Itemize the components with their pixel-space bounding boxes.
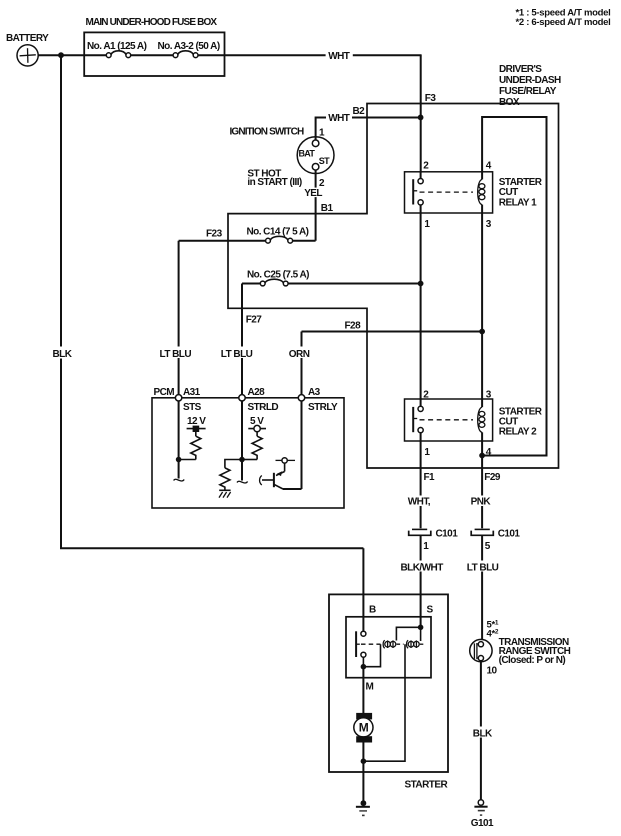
node B2/F3 junction [418,115,424,121]
wire M to motor [362,667,364,713]
svg-text:DRIVER'S: DRIVER'S [499,64,542,75]
svg-text:M: M [366,682,374,693]
wire range switch to G101 (BLK) [472,662,494,800]
ground G101 [471,800,494,829]
svg-text:YEL: YEL [304,188,322,199]
svg-text:FUSE/RELAY: FUSE/RELAY [499,86,557,97]
solenoid pull-in coil L1 [383,640,403,648]
svg-text:BLK: BLK [473,728,493,739]
svg-text:STARTER: STARTER [405,780,449,791]
svg-text:CUT: CUT [499,187,518,198]
starter motor M1 [354,713,373,743]
wire F27 to PCM A28 (LT BLU) [220,284,259,398]
wire motor to ground [362,743,364,804]
wire fuse box to F3 drop (WHT) [225,51,422,62]
starter box [329,594,448,790]
svg-text:BATTERY: BATTERY [6,33,49,44]
transistor Q1 (STRLY driver) [260,458,302,489]
node STS junction [176,457,182,463]
pin A31 STS [175,387,201,413]
wire contact to M node [363,644,380,667]
svg-text:No. A3-2 (50 A): No. A3-2 (50 A) [158,41,220,52]
fuse No. A1 (125 A) [84,41,173,58]
svg-text:MAIN UNDER-HOOD FUSE BOX: MAIN UNDER-HOOD FUSE BOX [86,17,218,28]
svg-text:STS: STS [183,402,202,413]
fuse No. A3-2 (50 A) [158,41,225,58]
svg-text:UNDER-DASH: UNDER-DASH [499,75,561,86]
svg-text:PNK: PNK [471,496,492,507]
solenoid hold-in coil L2 [407,627,425,648]
svg-text:A3: A3 [308,387,321,398]
svg-text:F1: F1 [424,472,436,483]
svg-text:F28: F28 [345,321,362,332]
svg-text:RELAY 1: RELAY 1 [499,198,537,209]
wire F3 vertical [420,55,422,172]
wire A28 internal [237,401,248,483]
wire coil return [363,644,405,761]
svg-text:A31: A31 [183,387,201,398]
node S junction [418,625,424,631]
svg-text:12 V: 12 V [187,416,206,427]
svg-text:*2 : 6-speed A/T model: *2 : 6-speed A/T model [516,17,611,28]
resistor to ground on STRLD [220,460,242,491]
note A/T models [516,8,611,28]
wire C101 to range switch (LT BLU) [466,535,499,639]
svg-text:B1: B1 [321,203,334,214]
svg-text:in START (III): in START (III) [247,177,302,188]
wire battery to fuse box [38,54,84,56]
wire A3 internal [301,401,303,489]
node M junction [361,664,367,670]
node F28/relay junction [479,329,485,335]
5 V pull-up on STRLD [242,416,266,460]
svg-text:A28: A28 [248,387,266,398]
svg-text:B: B [369,604,376,615]
wire relay2 pin4 to C101 (F29, PNK) [470,441,501,528]
node motor/coil junction [361,758,367,764]
svg-text:LT BLU: LT BLU [221,349,253,360]
starter cut relay 2 U2 [405,389,543,458]
svg-text:WHT,: WHT, [408,496,431,507]
wire relay1 pin4 loop to relay2 pin4 [482,117,546,456]
svg-text:IGNITION SWITCH: IGNITION SWITCH [230,127,305,138]
fuse No. C14 (7 5 A) [179,226,316,243]
svg-text:RELAY 2: RELAY 2 [499,427,537,438]
svg-text:F27: F27 [246,315,263,326]
svg-text:PCM: PCM [154,387,175,398]
main under-hood fuse box [84,17,224,76]
battery [6,33,49,66]
svg-text:STRLY: STRLY [308,402,338,413]
svg-text:LT BLU: LT BLU [160,349,192,360]
svg-text:ORN: ORN [289,349,310,360]
svg-text:BLK: BLK [53,349,73,360]
svg-text:BLK/WHT: BLK/WHT [401,562,444,573]
svg-text:WHT: WHT [328,113,350,124]
wire battery BLK down and across [51,55,363,548]
node battery junction [58,52,64,58]
wire ignition pin2 down (YEL, B1) [303,170,333,241]
svg-text:STRLD: STRLD [248,402,279,413]
pin A28 STRLD [239,387,279,413]
solenoid contacts [356,631,380,657]
wire ignition pin1 to B2 (WHT) [316,113,421,140]
12 V pull-up on STS [179,416,207,460]
wire relay1 pin3 to relay2 pin3 [481,213,483,399]
svg-text:S: S [427,604,434,615]
PCM box [152,387,344,508]
svg-text:F23: F23 [206,229,223,240]
svg-text:F29: F29 [484,472,501,483]
wire F28 (ORN) to PCM A3 [288,332,483,398]
svg-text:No. C25 (7.5 A): No. C25 (7.5 A) [247,269,309,280]
connector C101 pin 5 [471,529,520,553]
svg-text:10: 10 [487,666,498,677]
starter cut relay 1 U1 [405,161,543,231]
transmission range switch S1 [470,619,571,677]
wire relay2 pin1 to C101 (F1, WHT) [407,441,436,528]
pin A3 STRLY [298,387,338,413]
node C25 junction [418,281,424,287]
driver's under-dash fuse/relay box [228,64,561,468]
starter solenoid box [346,617,431,678]
fuse No. C25 (7.5 A) [242,269,421,286]
svg-text:BAT: BAT [299,149,316,159]
ground PCM internal [219,490,231,497]
svg-text:M: M [359,721,369,735]
svg-text:F3: F3 [425,93,437,104]
node relay2 pin4 junction [479,453,485,459]
wire relay1 pin1 to relay2 pin2 [420,213,422,399]
svg-text:(Closed: P or N): (Closed: P or N) [499,655,566,666]
svg-text:C101: C101 [498,529,521,540]
ground starter [356,800,370,815]
connector C101 pin 1 [409,529,458,553]
svg-text:B2: B2 [353,106,366,117]
wire BLK into starter B [362,548,364,631]
wire C101 to starter S (BLK/WHT) [400,535,444,627]
wire F23 to PCM A31 (LT BLU) [158,241,197,398]
ignition switch [230,127,335,190]
wire A31 internal [174,401,185,481]
svg-text:BOX: BOX [499,97,520,108]
node STRLD junction [239,457,245,463]
svg-text:ST: ST [319,156,330,166]
svg-text:C101: C101 [436,529,459,540]
wire S branch to pull-in coil [396,627,420,640]
svg-text:G101: G101 [471,818,494,829]
svg-text:WHT: WHT [328,51,350,62]
svg-text:LT BLU: LT BLU [467,562,499,573]
